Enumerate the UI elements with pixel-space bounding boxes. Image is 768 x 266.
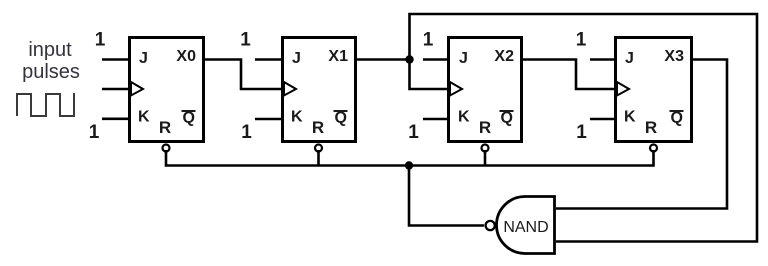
wire: FF4 J input stub [590,58,615,61]
svg-text:1: 1 [89,122,100,143]
FF3 reset bubble [482,145,489,152]
svg-text:1: 1 [576,30,587,51]
svg-text:pulses: pulses [22,61,80,83]
flip-flop FF3 (X2) box [449,38,522,142]
wire: FF2 bubble stem [317,150,320,166]
FF2 clock triangle [284,82,296,96]
pin label Qbar (FF4) [670,110,684,127]
svg-text:X0: X0 [176,48,196,65]
wire: X3 output to NAND upper input [556,60,727,209]
wire: FF3 K input stub [423,118,448,121]
svg-text:input: input [28,39,72,61]
pin label Qbar (FF2) [334,110,348,127]
svg-text:Q: Q [501,110,513,127]
label: input pulses [22,39,80,83]
flip-flop FF2 (X1) box [283,38,356,142]
FF1 clock triangle [131,82,143,96]
wire: X1 output to junction [355,58,410,61]
NAND gate U1 (left-facing) [497,197,555,254]
svg-text:R: R [645,118,657,137]
svg-text:R: R [479,118,491,137]
svg-text:X3: X3 [664,48,684,65]
NAND inversion bubble [486,221,495,230]
wire: X0 output to FF2 clock [203,60,282,90]
svg-text:NAND: NAND [503,219,548,236]
pin label Qbar (FF3) [500,110,514,127]
svg-text:Q: Q [183,110,195,127]
wire: FF1 K input stub [102,118,129,121]
wire: FF1 clock input stub [102,88,129,91]
wire: FF2 J input stub [255,58,282,61]
svg-text:K: K [458,109,470,126]
svg-text:J: J [139,50,148,67]
wire: FF2 K input stub [255,118,282,121]
junction dot: X1 / top bus [405,55,413,63]
svg-text:1: 1 [240,30,251,51]
wire: FF3 J input stub [423,58,448,61]
pin label Qbar (FF1) [182,110,196,127]
svg-text:1: 1 [95,30,106,51]
svg-text:K: K [624,109,636,126]
FF4 reset bubble [650,145,657,152]
FF1 reset bubble [163,145,170,152]
wire: FF1 J input stub [102,58,129,61]
svg-text:1: 1 [576,122,587,143]
svg-text:J: J [459,50,468,67]
svg-text:J: J [625,50,634,67]
wire: FF3 bubble stem [484,150,487,166]
wire: top feedback bus (X1 to NAND lower input) [410,14,758,242]
svg-text:K: K [291,109,303,126]
svg-text:J: J [292,50,301,67]
FF4 clock triangle [617,82,629,96]
flip-flop FF1 (X0) box [130,38,204,142]
input pulses waveform [17,93,74,116]
FF3 clock triangle [450,82,462,96]
wire: X2 output to FF4 clock [521,60,615,90]
svg-text:1: 1 [423,30,434,51]
flip-flop FF4 (X3) box [616,38,692,142]
wire: FF4 K input stub [590,118,615,121]
svg-text:1: 1 [408,122,419,143]
svg-text:R: R [312,118,324,137]
svg-text:Q: Q [335,110,347,127]
FF2 reset bubble [315,145,322,152]
svg-text:K: K [138,109,150,126]
svg-text:R: R [159,118,171,137]
wire: junction down to FF3 clock [410,60,449,90]
svg-text:X2: X2 [494,48,514,65]
wire: NAND output to reset bus [409,166,484,226]
wire: reset bus (R line) [166,150,654,166]
svg-text:X1: X1 [328,48,348,65]
svg-text:1: 1 [241,122,252,143]
junction dot: reset bus / NAND output [405,161,413,169]
svg-text:Q: Q [671,110,683,127]
